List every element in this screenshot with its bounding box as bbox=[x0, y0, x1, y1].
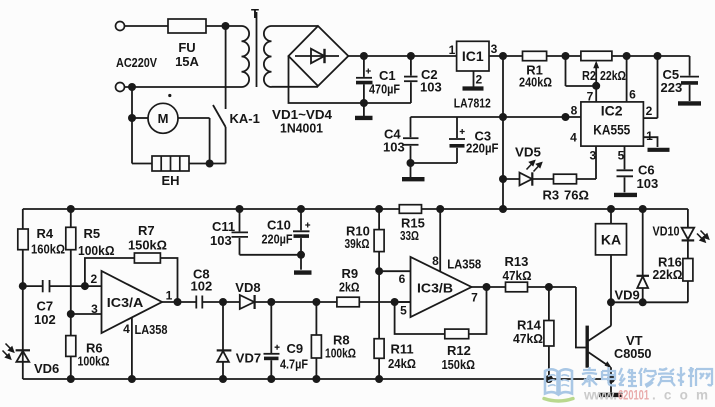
svg-text:470µF: 470µF bbox=[369, 82, 400, 97]
svg-text:KA-1: KA-1 bbox=[230, 111, 260, 126]
svg-text:24kΩ: 24kΩ bbox=[388, 356, 416, 371]
svg-text:102: 102 bbox=[34, 312, 56, 327]
svg-text:1: 1 bbox=[449, 43, 456, 57]
svg-text:C8050: C8050 bbox=[614, 346, 652, 361]
svg-text:100kΩ: 100kΩ bbox=[78, 354, 110, 369]
svg-text:1: 1 bbox=[166, 289, 173, 303]
svg-text:15A: 15A bbox=[175, 54, 199, 69]
svg-text:1: 1 bbox=[646, 129, 653, 143]
svg-text:VD9: VD9 bbox=[615, 288, 640, 303]
svg-text:4: 4 bbox=[570, 131, 577, 145]
svg-text:5: 5 bbox=[400, 304, 407, 318]
svg-text:103: 103 bbox=[420, 80, 442, 95]
svg-text:IC2: IC2 bbox=[601, 103, 623, 119]
svg-text:C11: C11 bbox=[212, 219, 235, 234]
svg-text:4: 4 bbox=[123, 322, 130, 336]
svg-text:76Ω: 76Ω bbox=[564, 188, 589, 203]
svg-text:39kΩ: 39kΩ bbox=[345, 236, 370, 251]
svg-text:2: 2 bbox=[90, 272, 97, 286]
svg-text:220µF: 220µF bbox=[466, 141, 499, 156]
svg-text:3: 3 bbox=[91, 302, 98, 316]
svg-text:240kΩ: 240kΩ bbox=[519, 75, 552, 90]
svg-text:IC1: IC1 bbox=[462, 48, 484, 64]
svg-text:3: 3 bbox=[491, 42, 498, 56]
svg-text:R12: R12 bbox=[447, 343, 471, 358]
svg-text:C9: C9 bbox=[287, 341, 304, 356]
svg-text:R4: R4 bbox=[37, 226, 54, 241]
svg-text:R3: R3 bbox=[543, 188, 560, 203]
svg-text:8: 8 bbox=[571, 104, 578, 118]
svg-text:7: 7 bbox=[587, 90, 594, 104]
svg-text:620101: 620101 bbox=[618, 388, 649, 403]
svg-text:2kΩ: 2kΩ bbox=[339, 280, 360, 295]
svg-text:33Ω: 33Ω bbox=[400, 228, 419, 243]
svg-text:R5: R5 bbox=[84, 226, 101, 241]
svg-text:KA555: KA555 bbox=[593, 122, 630, 138]
svg-text:IC3/A: IC3/A bbox=[107, 295, 144, 310]
svg-text:160kΩ: 160kΩ bbox=[31, 242, 65, 257]
svg-text:7: 7 bbox=[471, 291, 478, 305]
svg-text:LA358: LA358 bbox=[447, 257, 481, 272]
svg-text:R13: R13 bbox=[505, 254, 529, 269]
svg-text:www.: www. bbox=[583, 388, 617, 403]
svg-text:4.7µF: 4.7µF bbox=[280, 357, 308, 372]
svg-text:150kΩ: 150kΩ bbox=[442, 357, 476, 372]
svg-text:VD5: VD5 bbox=[515, 145, 541, 160]
svg-text:VD10: VD10 bbox=[653, 224, 680, 239]
svg-text:223: 223 bbox=[661, 80, 683, 95]
svg-text:8: 8 bbox=[432, 254, 439, 268]
svg-text:KA: KA bbox=[601, 232, 621, 248]
svg-text:VD6: VD6 bbox=[34, 361, 59, 376]
svg-text:100kΩ: 100kΩ bbox=[325, 346, 356, 361]
svg-text:22kΩ: 22kΩ bbox=[600, 68, 626, 83]
svg-text:LA358: LA358 bbox=[135, 322, 168, 337]
svg-text:2: 2 bbox=[646, 104, 653, 118]
svg-text:R7: R7 bbox=[138, 223, 155, 238]
svg-text:220µF: 220µF bbox=[262, 232, 293, 247]
svg-text:6: 6 bbox=[629, 88, 636, 102]
svg-text:22kΩ: 22kΩ bbox=[653, 267, 683, 282]
svg-text:VD8: VD8 bbox=[235, 280, 260, 295]
svg-text:R2: R2 bbox=[582, 68, 596, 83]
svg-text:M: M bbox=[158, 111, 169, 126]
svg-text:103: 103 bbox=[637, 176, 659, 191]
svg-text:3: 3 bbox=[589, 149, 596, 163]
svg-text:2: 2 bbox=[476, 73, 483, 87]
svg-text:103: 103 bbox=[210, 233, 232, 248]
svg-text:6: 6 bbox=[399, 272, 406, 286]
svg-text:LA7812: LA7812 bbox=[454, 96, 491, 111]
svg-text:T: T bbox=[251, 6, 259, 21]
svg-text:103: 103 bbox=[383, 140, 405, 155]
svg-text:VD7: VD7 bbox=[236, 351, 261, 366]
svg-text:C10: C10 bbox=[267, 218, 291, 233]
svg-text:FU: FU bbox=[178, 40, 195, 55]
svg-text:150kΩ: 150kΩ bbox=[128, 238, 167, 253]
svg-text:47kΩ: 47kΩ bbox=[503, 268, 532, 283]
svg-text:100kΩ: 100kΩ bbox=[78, 243, 115, 258]
svg-text:AC220V: AC220V bbox=[116, 55, 157, 70]
svg-text:R11: R11 bbox=[391, 342, 414, 357]
svg-text:1N4001: 1N4001 bbox=[280, 121, 323, 136]
svg-text:47kΩ: 47kΩ bbox=[513, 331, 543, 346]
svg-text:102: 102 bbox=[191, 279, 213, 294]
svg-text:EH: EH bbox=[161, 173, 179, 188]
svg-text:IC3/B: IC3/B bbox=[417, 281, 453, 296]
svg-text:5: 5 bbox=[618, 149, 625, 163]
